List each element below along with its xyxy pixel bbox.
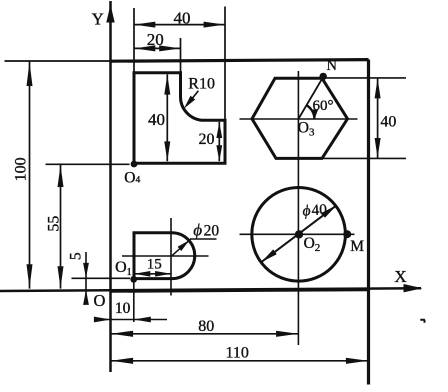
arrowhead 15 left <box>134 271 150 277</box>
slot vertical centerline <box>170 218 172 296</box>
extension line hexagon top <box>323 77 406 79</box>
point O4 dot <box>131 161 138 168</box>
svg-text:110: 110 <box>225 344 248 361</box>
R10 leader arrowhead <box>184 96 195 109</box>
dimension line 15 <box>134 273 171 275</box>
svg-text:40: 40 <box>174 8 191 27</box>
extension line 10 (below O1) <box>133 282 135 322</box>
arrowhead 40 vert top <box>164 75 170 95</box>
svg-text:40: 40 <box>148 110 165 129</box>
svg-text:20: 20 <box>199 131 215 148</box>
arrowhead 55 top <box>58 165 64 187</box>
X axis arrowhead <box>404 284 423 292</box>
X axis line <box>0 288 421 291</box>
svg-text:15: 15 <box>147 257 162 273</box>
shared vertical centerline <box>297 71 299 345</box>
point N dot <box>320 73 327 80</box>
arrowhead 40 top left <box>134 22 155 28</box>
workpiece bottom edge <box>110 290 369 292</box>
Y axis arrowhead <box>106 5 114 23</box>
L-contour with R10 fillet <box>134 73 225 164</box>
arrowhead 40 hex top <box>375 78 381 98</box>
extension line 100 top <box>5 60 110 62</box>
dimension line 40 hexagon <box>377 78 379 158</box>
dimension line 20 vertical <box>218 122 220 161</box>
svg-text:10: 10 <box>115 300 131 317</box>
svg-text:60°: 60° <box>313 98 334 114</box>
60 degree angle arc <box>306 105 314 119</box>
dimension line 40 vertical <box>166 74 168 161</box>
svg-text:R10: R10 <box>188 75 215 92</box>
phi20 leader line <box>172 239 191 256</box>
arrowhead 100 bottom <box>27 264 33 288</box>
phi20 leader shelf <box>190 238 217 240</box>
svg-text:80: 80 <box>198 318 214 335</box>
arrowhead 40 hex bottom <box>375 138 381 158</box>
hexagon horizontal centerline <box>240 118 358 120</box>
dimension line 110 <box>111 360 368 362</box>
arrowhead 80 left <box>111 331 133 337</box>
svg-text:100: 100 <box>13 157 30 181</box>
circle horizontal centerline <box>240 233 355 235</box>
60 degree arc arrowhead <box>313 109 318 119</box>
dimension line 55 <box>60 165 62 289</box>
dimension line 100 <box>29 62 31 289</box>
hexagon contour <box>252 78 348 158</box>
dimension line 80 <box>111 333 299 335</box>
svg-text:X: X <box>394 267 406 286</box>
svg-text:5: 5 <box>68 252 85 260</box>
extension line right of 40 top dim <box>224 7 226 121</box>
Y axis line <box>109 1 112 372</box>
arrowhead 20 vert bottom <box>216 145 222 161</box>
arrowhead 20 vert top <box>216 122 222 138</box>
arrowhead 80 right <box>276 331 298 337</box>
R10 leader line <box>187 91 199 106</box>
svg-text:Y: Y <box>92 10 104 29</box>
extension line right of 20 top dim <box>180 38 182 72</box>
arrowhead 110 left <box>111 358 133 364</box>
arrowhead 10 right (points left) <box>134 317 151 323</box>
stray mark at right margin <box>420 320 425 323</box>
arrowhead 5 upper (down) <box>83 263 89 278</box>
extension line 55 top (from O4) <box>46 163 130 165</box>
arrowhead 110 right <box>346 358 368 364</box>
svg-text:20: 20 <box>147 30 164 49</box>
extension line left of 40/20 top dims <box>133 8 135 72</box>
extension line 5 (from O1) <box>72 277 131 279</box>
dimension line 20 top <box>134 47 181 49</box>
arrowhead 100 top <box>27 62 33 86</box>
dimension line 10 <box>95 319 167 321</box>
arrowhead 40 vert bottom <box>164 141 170 161</box>
svg-text:N: N <box>327 58 338 74</box>
60 degree radius line <box>298 78 322 119</box>
point O2 dot <box>295 230 303 238</box>
arrowhead 55 bottom <box>58 266 64 288</box>
phi20 leader arrowhead <box>178 240 190 251</box>
arrowhead 5 lower (up) <box>83 290 89 305</box>
arrowhead 20 top right <box>159 45 180 51</box>
phi40 diameter arrowhead upper <box>321 205 336 218</box>
dimension line 5 <box>85 252 87 300</box>
arrowhead 10 left (points right) <box>94 317 111 323</box>
svg-text:M: M <box>350 238 364 255</box>
circle phi40 contour <box>252 188 346 282</box>
workpiece top edge <box>110 60 369 62</box>
extension line hexagon bottom <box>324 157 407 159</box>
arrowhead 20 top left <box>134 45 155 51</box>
svg-text:ϕ40: ϕ40 <box>302 201 328 219</box>
arrowhead 40 top right <box>204 22 225 28</box>
arrowhead 15 right <box>155 271 171 277</box>
slot contour with round end <box>134 233 195 279</box>
svg-text:ϕ20: ϕ20 <box>193 221 219 240</box>
dimension line 40 top <box>134 24 225 26</box>
point M dot <box>343 230 351 238</box>
workpiece right edge <box>367 60 370 385</box>
slot horizontal centerline <box>122 255 209 257</box>
svg-text:O: O <box>94 291 106 310</box>
phi40 diameter arrowhead lower <box>261 249 276 262</box>
phi40 diameter line <box>261 205 336 262</box>
svg-text:55: 55 <box>45 216 62 232</box>
svg-text:40: 40 <box>380 113 396 130</box>
point O1 dot <box>130 276 137 283</box>
